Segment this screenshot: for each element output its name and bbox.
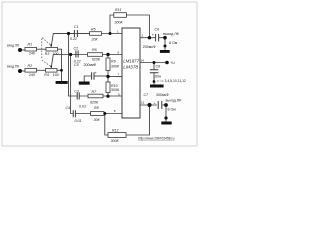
- svg-text:C7: C7: [144, 93, 150, 97]
- svg-text:14: 14: [141, 58, 145, 62]
- wire pin14 supply row: [140, 62, 167, 64]
- svg-text:300К: 300К: [111, 139, 120, 143]
- svg-text:R12: R12: [112, 128, 119, 132]
- node output pin13 junction: [147, 103, 151, 107]
- svg-text:R5: R5: [91, 27, 96, 31]
- ground (output LK): [160, 50, 170, 53]
- svg-text:200мкФ: 200мкФ: [84, 63, 97, 67]
- capacitor C2: [76, 51, 78, 58]
- potentiometer R4: [46, 69, 58, 73]
- node pin6 junction: [106, 53, 109, 56]
- wire R3 right to ground bus: [58, 49, 62, 81]
- wire R12 right to pin13 node: [126, 105, 150, 135]
- svg-text:300мкФ: 300мкФ: [156, 93, 169, 97]
- svg-text:300К: 300К: [111, 64, 120, 68]
- svg-text:R2: R2: [28, 64, 33, 68]
- node output LK gnd dot: [164, 45, 167, 48]
- svg-text:+: +: [152, 32, 155, 37]
- svg-text:R8: R8: [94, 106, 99, 110]
- svg-text:R7: R7: [92, 90, 98, 94]
- svg-text:LM378: LM378: [123, 65, 138, 71]
- svg-text:выход.ЛК: выход.ЛК: [163, 32, 180, 36]
- svg-text:9: 9: [118, 93, 120, 97]
- wiper arrow R3: [50, 45, 52, 69]
- wire R11 right to output: [127, 15, 150, 38]
- svg-text:C5: C5: [74, 63, 79, 67]
- capacitor C1: [53, 30, 162, 117]
- wire R4 right: [57, 69, 62, 71]
- svg-text:300К: 300К: [115, 20, 124, 24]
- node output pin2 junction: [148, 36, 151, 39]
- wire pin7 row: [108, 76, 122, 78]
- gang dashed link R3/R4: [42, 37, 50, 66]
- svg-text:620К: 620К: [92, 57, 101, 61]
- wire pin6 row: [53, 54, 122, 56]
- wire R1-R3: [37, 48, 47, 50]
- ground (C5): [79, 82, 90, 85]
- node supply junction: [153, 61, 156, 64]
- potentiometer R3: [46, 47, 58, 51]
- wire pin2 output row: [140, 37, 155, 39]
- resistor R2: [25, 69, 37, 73]
- capacitor C3: [77, 93, 79, 100]
- resistor R7: [88, 94, 103, 98]
- resistor R12: [108, 133, 126, 138]
- svg-text:13: 13: [141, 101, 145, 105]
- svg-text:240: 240: [29, 52, 35, 56]
- svg-text:0.01: 0.01: [79, 105, 86, 109]
- svg-text:http://www.299702458.ru: http://www.299702458.ru: [138, 137, 175, 141]
- resistor R9: [106, 58, 110, 71]
- node output PK terminal: [164, 103, 168, 107]
- pin numbers: [114, 30, 145, 113]
- resistor R10: [106, 82, 110, 93]
- svg-text:C2: C2: [74, 46, 79, 50]
- ground (C8 / pins): [150, 85, 164, 88]
- svg-text:C4: C4: [66, 106, 71, 110]
- resistor R8: [91, 112, 105, 116]
- svg-text:100: 100: [53, 52, 59, 56]
- svg-text:C8: C8: [156, 65, 161, 69]
- svg-text:R9: R9: [111, 60, 116, 64]
- ground (output PK): [161, 122, 171, 125]
- node input LK: [18, 32, 169, 120]
- svg-text:R6: R6: [92, 48, 97, 52]
- capacitor C5: [92, 72, 94, 79]
- node R4 ground junction: [60, 69, 63, 72]
- capacitor C7: [158, 101, 162, 109]
- wire R3 wiper riser: [51, 34, 53, 47]
- capacitor C6: [156, 34, 159, 41]
- svg-text:7: 7: [118, 73, 120, 77]
- ground (R3/R4 bus): [56, 50, 172, 125]
- svg-text:R11: R11: [115, 8, 121, 12]
- svg-text:620К: 620К: [90, 101, 99, 105]
- resistor R11 feedback left drop: [110, 15, 114, 34]
- wire R4 wiper riser: [51, 55, 53, 68]
- svg-text:30К: 30К: [94, 118, 101, 122]
- svg-text:R4: R4: [44, 73, 49, 77]
- wire input1: [22, 49, 26, 51]
- node output LK terminal: [163, 36, 167, 40]
- node C8 ground junction: [153, 80, 156, 83]
- svg-text:3,4,5,10,11,12: 3,4,5,10,11,12: [165, 79, 187, 83]
- node pin7 junction: [106, 75, 109, 78]
- svg-text:8 Ом: 8 Ом: [168, 108, 177, 112]
- capacitor C4: [73, 110, 75, 117]
- wiper arrow R4: [50, 66, 52, 69]
- node pin9 junction: [106, 95, 109, 98]
- node bus2 row2 junction: [69, 53, 72, 56]
- wire output LK ground: [164, 38, 166, 50]
- node input PK: [18, 69, 22, 73]
- svg-text:+: +: [95, 71, 98, 75]
- svg-text:C3: C3: [74, 89, 79, 93]
- svg-text:300К: 300К: [111, 88, 120, 92]
- svg-text:1: 1: [117, 30, 119, 34]
- op-amp U1 LM1877/LM378: [122, 28, 140, 118]
- svg-text:200мкФ: 200мкФ: [143, 45, 156, 49]
- svg-text:R10: R10: [111, 84, 118, 88]
- node bus1 row1 junction: [67, 32, 70, 35]
- svg-text:0.22: 0.22: [70, 37, 77, 41]
- svg-text:8 Ом: 8 Ом: [169, 41, 178, 45]
- svg-text:240: 240: [29, 73, 35, 77]
- wire pin1 row: [53, 33, 122, 35]
- node pin1 junction: [109, 32, 112, 35]
- wire bus row2 to C4: [71, 55, 74, 114]
- svg-text:C6: C6: [155, 27, 160, 31]
- svg-text:+U: +U: [170, 61, 175, 65]
- svg-text:100н: 100н: [153, 74, 161, 78]
- wire R2-R4: [37, 69, 46, 71]
- resistor R1: [25, 13, 126, 138]
- wire input2: [22, 70, 26, 72]
- wire pin13 output row: [140, 104, 157, 106]
- wire R12 left: [105, 114, 108, 136]
- pins ground annotation line: [157, 80, 164, 82]
- wire bus row1 to C3: [69, 34, 78, 97]
- svg-text:0.01: 0.01: [75, 119, 82, 123]
- svg-text:8: 8: [114, 109, 116, 113]
- wire pin9 row: [79, 95, 122, 97]
- svg-text:выход.ПК: выход.ПК: [166, 99, 183, 103]
- svg-text:C1: C1: [74, 25, 79, 29]
- resistor R6: [88, 53, 103, 57]
- svg-text:вход.ЛК: вход.ЛК: [7, 43, 19, 47]
- node output PK gnd dot: [164, 116, 167, 119]
- svg-text:20К: 20К: [91, 37, 99, 41]
- svg-text:2: 2: [142, 34, 144, 38]
- wire C5 to ground: [84, 76, 91, 82]
- node pin8 junction: [103, 112, 106, 115]
- svg-text:вход.ПК: вход.ПК: [7, 65, 19, 69]
- capacitor C8: [150, 70, 159, 73]
- node +U terminal: [165, 61, 169, 65]
- svg-text:R1: R1: [28, 43, 33, 47]
- svg-text:6: 6: [118, 51, 120, 55]
- wire C8 branch: [153, 63, 155, 70]
- wire pin8 row: [75, 113, 122, 115]
- resistor R11: [114, 13, 127, 18]
- svg-text:100: 100: [53, 73, 59, 77]
- svg-text:R3: R3: [45, 52, 50, 56]
- resistor R5: [90, 32, 102, 36]
- wire R9 chain: [107, 55, 109, 59]
- wire output PK ground: [165, 105, 167, 122]
- svg-text:LM1877: LM1877: [123, 59, 139, 64]
